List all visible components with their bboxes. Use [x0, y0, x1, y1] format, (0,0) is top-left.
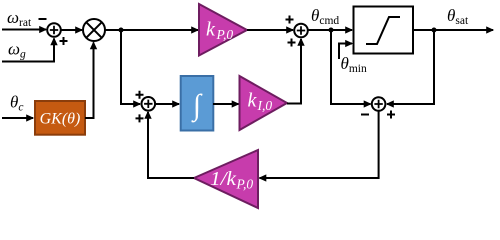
wire omega_g input	[2, 39, 54, 62]
integrator U1	[181, 76, 214, 131]
plus sign above-left of S3	[136, 91, 144, 99]
summing junction S3	[142, 97, 156, 111]
summing junction S4	[372, 97, 386, 111]
plus sign below-left of S3	[136, 114, 144, 122]
node A (branch after multiplier)	[119, 28, 124, 33]
multiplier X1	[83, 19, 105, 41]
summing junction S2	[294, 24, 308, 38]
plus sign above-left of S2	[286, 16, 294, 24]
plus sign right of S4	[387, 111, 395, 119]
wire theta_min into saturation block	[339, 44, 352, 60]
wire node A down to summing junction S3	[121, 30, 140, 104]
wire S4 down to 1/kP0	[260, 111, 379, 178]
svg-text:P,0: P,0	[236, 177, 254, 192]
svg-text:k: k	[206, 19, 216, 41]
wire saturation output theta_sat	[414, 29, 493, 31]
gain kI0 triangle	[240, 76, 288, 130]
svg-text:P,0: P,0	[216, 27, 234, 42]
wire S3 to integrator	[155, 103, 179, 105]
wire theta_sat down to S4	[387, 30, 434, 104]
gain kP0 triangle	[199, 4, 247, 56]
wire omega_rat input	[2, 29, 46, 31]
wire theta_cmd down to summing junction S4	[331, 30, 371, 104]
minus sign left of S4	[361, 114, 369, 116]
gain 1/kP0 triangle	[194, 150, 258, 208]
svg-text:k: k	[248, 90, 258, 112]
plus sign below S1	[60, 37, 68, 45]
wire S2 to saturation block	[308, 29, 352, 31]
wire theta_c input	[2, 117, 33, 119]
wire integrator to gain kI0	[213, 103, 239, 105]
wire kP0 to S2	[247, 29, 293, 31]
svg-text:1/k: 1/k	[210, 168, 237, 190]
wire multiplier to gain kP0	[105, 29, 198, 31]
node theta_sat	[432, 28, 437, 33]
wire S1 to multiplier	[61, 29, 82, 31]
svg-text:GK(θ): GK(θ)	[40, 111, 81, 128]
summing junction S1	[47, 23, 61, 37]
node theta_cmd	[329, 28, 334, 33]
minus sign at summing junction S1	[39, 18, 47, 20]
wire 1/kP0 to S3	[148, 112, 194, 178]
saturation block	[354, 7, 414, 54]
plus sign below-left of S2	[288, 39, 296, 47]
wire kI0 to summing junction S2	[287, 39, 301, 104]
gain block GK(theta)	[35, 101, 85, 135]
svg-text:I,0: I,0	[257, 98, 273, 113]
wire GK(theta) to multiplier	[85, 43, 94, 119]
